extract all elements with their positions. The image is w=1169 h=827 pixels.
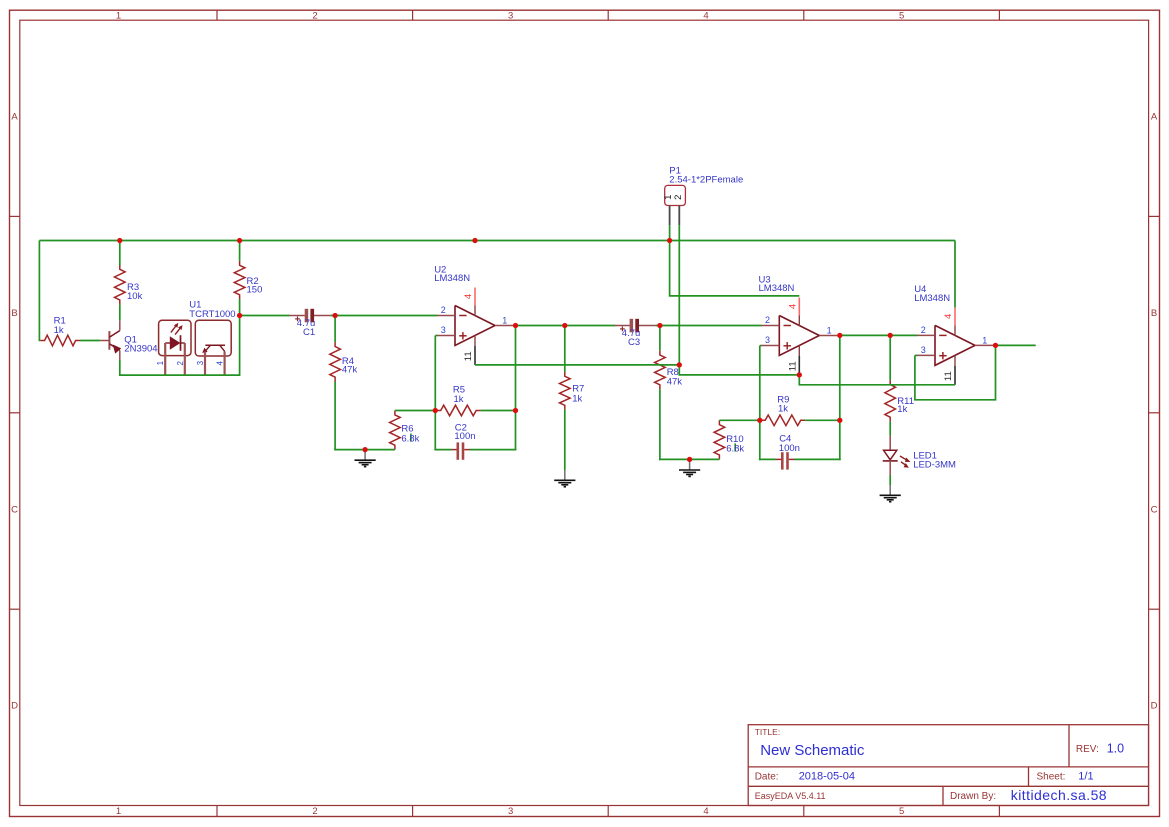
resistor R4 47k xyxy=(330,342,341,381)
U2 pin 4 (V+) stub xyxy=(474,288,476,306)
wire C1 to U2 pin2 xyxy=(331,315,438,317)
wire ground rail stage 2 xyxy=(659,458,719,460)
R3 labels xyxy=(127,282,143,302)
svg-text:100n: 100n xyxy=(779,443,800,454)
svg-text:3: 3 xyxy=(921,345,926,355)
svg-text:TITLE:: TITLE: xyxy=(755,727,781,737)
wire R5 right to node xyxy=(481,410,516,412)
svg-text:2018-05-04: 2018-05-04 xyxy=(799,771,855,783)
title block texts xyxy=(755,727,1124,803)
wire top supply rail xyxy=(39,240,955,242)
svg-text:1k: 1k xyxy=(454,394,464,405)
svg-text:2N3904: 2N3904 xyxy=(124,343,157,354)
svg-text:TCRT1000: TCRT1000 xyxy=(189,309,235,320)
op-amp U3 LM348N xyxy=(761,316,837,357)
svg-text:B: B xyxy=(11,308,17,319)
resistor R7 1k xyxy=(560,372,571,410)
svg-text:4: 4 xyxy=(703,11,708,22)
R9 labels xyxy=(777,395,789,415)
svg-text:3: 3 xyxy=(441,325,446,335)
wire node A down to R4 xyxy=(334,316,336,343)
svg-text:47k: 47k xyxy=(667,377,683,388)
svg-text:3: 3 xyxy=(508,11,513,22)
svg-text:B: B xyxy=(1151,308,1157,319)
U2 pin 11 (V-) stub xyxy=(474,346,476,365)
resistor R3 10k xyxy=(115,265,126,305)
U3 pin number labels xyxy=(765,304,832,371)
U4 reference labels xyxy=(914,284,950,304)
svg-text:1: 1 xyxy=(502,316,507,326)
wire U3 output row to U4 pin2 xyxy=(837,334,917,336)
wire rail branch to U3 supply xyxy=(670,241,800,296)
svg-text:150: 150 xyxy=(247,285,263,296)
frame row ticks xyxy=(10,216,1160,609)
wire P1 pin2 drop xyxy=(678,225,680,365)
svg-text:1: 1 xyxy=(116,806,121,817)
U2 pin number labels xyxy=(441,294,508,361)
U1 pin numbers xyxy=(156,360,224,365)
ground LED1 xyxy=(880,485,901,502)
resistor R8 47k xyxy=(655,351,666,390)
svg-text:1k: 1k xyxy=(778,404,788,415)
svg-text:2: 2 xyxy=(312,806,317,817)
svg-text:D: D xyxy=(1151,701,1158,712)
svg-text:3: 3 xyxy=(765,335,770,345)
wire rail to R3 xyxy=(119,241,121,266)
wire node down to bottom rail xyxy=(239,316,241,376)
svg-text:2: 2 xyxy=(176,360,185,365)
R10 labels xyxy=(726,434,744,455)
resistor R10 6.8k xyxy=(714,420,725,459)
R4 labels xyxy=(342,356,358,376)
wire U2 pin3 vertical xyxy=(435,336,437,451)
R8 labels xyxy=(667,367,683,388)
svg-text:100n: 100n xyxy=(454,431,475,442)
U1 pins 1-4 xyxy=(165,343,224,376)
wire U2 pin11 row xyxy=(475,364,679,366)
wire R11 to LED1 xyxy=(889,422,891,436)
resistor R9 1k xyxy=(761,415,805,426)
C3 labels xyxy=(622,328,641,348)
svg-text:A: A xyxy=(1151,112,1158,123)
svg-text:REV:: REV: xyxy=(1076,744,1099,755)
U3 pin 11 (V-) stub xyxy=(798,356,800,375)
svg-text:LED-3MM: LED-3MM xyxy=(913,460,956,471)
resistor R2 150 xyxy=(234,261,245,299)
wire U2 output row xyxy=(513,325,615,327)
svg-text:1/1: 1/1 xyxy=(1078,771,1093,783)
U4 pin number labels xyxy=(921,314,988,381)
svg-text:1: 1 xyxy=(156,360,165,365)
C2 labels xyxy=(454,423,475,442)
R7 labels xyxy=(572,383,584,404)
wire rail to R2 xyxy=(239,241,241,261)
wire stub artifact near R10 label xyxy=(734,443,736,451)
P1 pin numbers xyxy=(663,195,684,200)
wire R4 to ground rail xyxy=(334,382,336,451)
svg-text:1: 1 xyxy=(116,11,121,22)
svg-text:1k: 1k xyxy=(897,404,907,415)
U2 reference labels xyxy=(434,264,470,284)
wire staircase to U3 pin11 xyxy=(679,365,799,375)
wire R9 right to node xyxy=(805,419,840,421)
svg-text:4: 4 xyxy=(943,314,954,319)
junction dots xyxy=(117,238,998,462)
wire C2 row xyxy=(434,449,516,451)
frame column ticks xyxy=(217,10,999,816)
svg-text:5: 5 xyxy=(899,11,904,22)
resistor R1 1k xyxy=(40,335,80,346)
U4 pin 11 (V-) stub xyxy=(954,366,956,385)
P1 labels xyxy=(669,166,743,186)
R1 labels xyxy=(54,315,66,336)
capacitor C1 4.7u xyxy=(289,309,331,323)
title block xyxy=(748,725,1148,806)
frame column numbers xyxy=(116,11,904,818)
svg-text:2: 2 xyxy=(921,325,926,335)
wire P1 pin1 to rail xyxy=(669,225,671,240)
svg-text:1.0: 1.0 xyxy=(1107,741,1124,755)
U3 pin 4 (V+) stub xyxy=(798,298,800,316)
svg-text:LM348N: LM348N xyxy=(434,273,470,284)
C4 labels xyxy=(779,434,800,454)
wire node to R11 xyxy=(889,335,891,380)
wire stub artifact near R6 label xyxy=(410,434,412,442)
svg-text:A: A xyxy=(11,112,18,123)
optocoupler U1 TCRT1000 phototransistor box xyxy=(195,320,231,356)
svg-text:4: 4 xyxy=(788,304,799,309)
svg-text:5: 5 xyxy=(899,806,904,817)
svg-text:2: 2 xyxy=(441,305,446,315)
LED1 labels xyxy=(913,451,956,471)
optocoupler U1 TCRT1000 emitter box xyxy=(159,320,191,355)
U3 reference labels xyxy=(759,274,795,294)
svg-text:1: 1 xyxy=(982,335,987,345)
svg-text:C1: C1 xyxy=(303,327,315,338)
svg-text:1k: 1k xyxy=(54,325,64,336)
svg-text:6.8k: 6.8k xyxy=(401,433,419,444)
LED1 LED-3MM xyxy=(883,436,911,475)
R11 labels xyxy=(897,396,914,415)
svg-text:2.54-1*2PFemale: 2.54-1*2PFemale xyxy=(669,175,743,186)
wire R7 to ground xyxy=(564,410,566,470)
svg-text:kittidech.sa.58: kittidech.sa.58 xyxy=(1011,787,1107,803)
op-amp U2 LM348N xyxy=(437,306,513,347)
C1 labels xyxy=(297,318,316,338)
ground stage 2 xyxy=(679,460,700,477)
svg-text:6.8k: 6.8k xyxy=(726,444,744,455)
wire U3 pin3 vertical xyxy=(760,346,762,461)
svg-text:2: 2 xyxy=(673,195,684,200)
wire U4 supply riser xyxy=(954,241,956,308)
svg-text:LM348N: LM348N xyxy=(914,293,950,304)
svg-text:1k: 1k xyxy=(572,393,582,404)
capacitor C4 100n xyxy=(775,452,794,469)
svg-text:C3: C3 xyxy=(628,337,640,348)
resistor R6 6.8k xyxy=(390,411,401,450)
wire C3 to U3 pin2 xyxy=(655,325,761,327)
frame row letters xyxy=(11,112,1158,712)
svg-text:Drawn By:: Drawn By: xyxy=(950,791,996,802)
U4 pin 4 (V+) stub xyxy=(954,307,956,325)
op-amp U4 LM348N xyxy=(917,325,993,366)
wire U2 output vertical xyxy=(515,326,517,451)
ground stage 1 xyxy=(355,450,376,467)
wire R2 to node xyxy=(239,299,241,316)
wire node to C1 xyxy=(240,315,290,317)
svg-text:4: 4 xyxy=(216,360,225,365)
R6 labels xyxy=(401,424,419,445)
svg-text:2: 2 xyxy=(312,11,317,22)
transistor Q1 2N3904 xyxy=(100,320,121,360)
wire ground rail stage 1 xyxy=(334,449,395,451)
wire R1 to Q1 base xyxy=(80,340,100,342)
svg-text:4: 4 xyxy=(463,294,474,299)
svg-text:C: C xyxy=(11,504,18,515)
wire R7 riser xyxy=(564,326,566,372)
svg-text:2: 2 xyxy=(765,315,770,325)
wire U3 output vertical xyxy=(839,335,841,460)
svg-text:Date:: Date: xyxy=(755,772,779,783)
svg-text:Sheet:: Sheet: xyxy=(1037,772,1066,783)
wire C4 row xyxy=(759,458,841,460)
wire R8 to ground rail 2 xyxy=(659,389,661,460)
svg-text:EasyEDA V5.4.11: EasyEDA V5.4.11 xyxy=(755,791,826,801)
wire Q1 emitter down xyxy=(119,360,121,376)
wire R3 to Q1 collector xyxy=(119,304,121,320)
Q1 labels xyxy=(124,335,157,355)
wire node to R8 xyxy=(659,326,661,351)
connector P1 2.54-1*2PFemale xyxy=(665,185,686,225)
wire R6 top to U2 pin3 node xyxy=(395,410,435,412)
wire U4 feedback loop xyxy=(915,345,996,399)
R2 labels xyxy=(247,276,263,295)
wire U4 output xyxy=(993,344,1035,346)
svg-text:3: 3 xyxy=(196,360,205,365)
svg-text:C: C xyxy=(1151,504,1158,515)
svg-text:LM348N: LM348N xyxy=(759,283,795,294)
svg-text:3: 3 xyxy=(508,806,513,817)
svg-text:10k: 10k xyxy=(127,291,143,302)
svg-text:New Schematic: New Schematic xyxy=(760,742,865,759)
capacitor C2 100n xyxy=(451,442,470,459)
ground R7 xyxy=(554,470,575,487)
wire LED1 to ground xyxy=(889,475,891,485)
wire left drop to R1 xyxy=(38,241,40,342)
svg-text:1: 1 xyxy=(827,326,832,336)
resistor R5 1k xyxy=(436,405,480,416)
svg-text:47k: 47k xyxy=(342,365,358,376)
svg-text:D: D xyxy=(11,701,18,712)
svg-text:4: 4 xyxy=(703,806,708,817)
wire R10 top to U3 pin3 node xyxy=(719,419,759,421)
capacitor C3 4.7u xyxy=(614,319,656,333)
R5 labels xyxy=(453,385,465,405)
U1 labels xyxy=(189,299,235,320)
wire bottom rail under U1 xyxy=(119,374,240,376)
svg-text:11: 11 xyxy=(943,371,954,381)
resistor R11 1k xyxy=(885,380,896,422)
wire staircase to U4 pin11 xyxy=(799,375,955,385)
svg-text:11: 11 xyxy=(787,361,798,371)
svg-text:11: 11 xyxy=(463,351,474,361)
